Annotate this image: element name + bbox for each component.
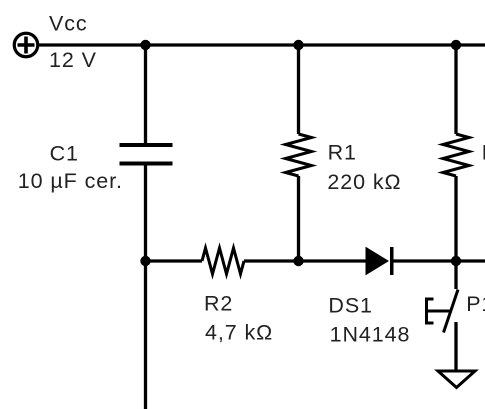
wire C1 branch lower vertical bbox=[144, 166, 147, 409]
resistor R3 (label cut off at edge) bbox=[443, 134, 469, 176]
svg-text:R1: R1 bbox=[328, 140, 357, 164]
wire switch lower vertical bbox=[454, 322, 457, 371]
node junction top-right bbox=[451, 40, 461, 50]
capacitor C1 bbox=[120, 145, 173, 164]
svg-text:10 µF cer.: 10 µF cer. bbox=[18, 169, 123, 193]
svg-text:12 V: 12 V bbox=[49, 48, 97, 72]
wire top horizontal rail bbox=[39, 43, 485, 46]
svg-text:P1: P1 bbox=[466, 292, 485, 316]
power terminal Vcc (circle with plus) bbox=[14, 33, 38, 57]
svg-text:220 kΩ: 220 kΩ bbox=[327, 170, 401, 194]
svg-text:4,7 kΩ: 4,7 kΩ bbox=[205, 321, 273, 345]
node junction top-left bbox=[140, 40, 150, 50]
wire right branch upper vertical bbox=[454, 45, 457, 134]
node junction bottom-middle bbox=[293, 256, 303, 266]
wire right branch middle vertical bbox=[454, 176, 457, 289]
resistor R2 bbox=[202, 248, 244, 274]
svg-text:R2: R2 bbox=[204, 292, 233, 316]
wire bottom horizontal rail left segment bbox=[146, 259, 203, 262]
svg-text:Vcc: Vcc bbox=[49, 12, 88, 36]
wire R1 branch upper vertical bbox=[297, 45, 300, 134]
svg-text:1N4148: 1N4148 bbox=[330, 322, 411, 346]
wire C1 branch upper vertical bbox=[144, 45, 147, 143]
node junction bottom-right bbox=[451, 256, 461, 266]
svg-text:DS1: DS1 bbox=[328, 294, 373, 318]
wire R1 branch lower vertical bbox=[297, 176, 300, 261]
node junction bottom-left bbox=[140, 256, 150, 266]
svg-text:C1: C1 bbox=[50, 141, 79, 165]
diode DS1 bbox=[366, 247, 392, 275]
ground bbox=[438, 371, 475, 388]
node junction top-middle bbox=[293, 40, 303, 50]
pushbutton P1 bbox=[427, 290, 459, 333]
wire bottom horizontal rail middle segment bbox=[244, 259, 366, 262]
resistor R1 bbox=[286, 134, 312, 176]
wire bottom horizontal rail right segment bbox=[394, 259, 485, 262]
